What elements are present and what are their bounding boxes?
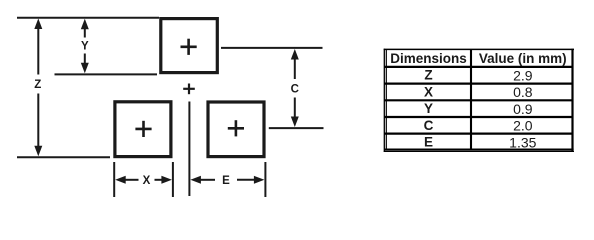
pad P1 (top square) — [161, 19, 218, 73]
extension line E right — [264, 162, 266, 197]
reference line bottom (Z lower datum) — [17, 156, 110, 158]
svg-text:E: E — [222, 175, 230, 187]
dimensions table left outer border — [383, 49, 385, 152]
dimensions table row separators — [384, 67, 573, 134]
center cross of pad P3 — [228, 120, 244, 136]
dimension Z arrowhead up — [34, 19, 42, 30]
center line vertical — [188, 102, 190, 197]
dimension Y arrow — [84, 27, 86, 65]
reference line Y lower datum — [55, 73, 158, 75]
dimension Z arrowhead down — [34, 146, 42, 157]
svg-text:C: C — [291, 83, 299, 95]
svg-text:0.8: 0.8 — [513, 84, 533, 100]
dimension X arrow left — [124, 179, 139, 181]
dimension Z arrow — [37, 27, 39, 148]
svg-text:Z: Z — [424, 68, 432, 83]
dimensions table left inner border — [385, 50, 387, 150]
dimension E arrow left — [199, 179, 215, 181]
center cross of pad P1 — [181, 39, 197, 55]
svg-text:Value (in mm): Value (in mm) — [479, 51, 567, 66]
dimension Y arrowhead up — [81, 19, 89, 30]
pad P3 (lower-right square) — [208, 102, 264, 157]
center cross of pad P2 — [135, 121, 151, 137]
svg-text:2.0: 2.0 — [513, 118, 533, 134]
reference line C lower datum — [269, 127, 324, 129]
extension line X left — [113, 162, 115, 197]
dimension C arrowhead down — [291, 117, 299, 128]
svg-text:1.35: 1.35 — [509, 134, 536, 150]
svg-text:E: E — [424, 135, 433, 150]
svg-text:Dimensions: Dimensions — [390, 51, 467, 66]
dimension Y arrowhead down — [81, 63, 89, 74]
svg-text:C: C — [424, 118, 434, 133]
dimensions table bottom inner border — [384, 149, 574, 151]
svg-text:X: X — [143, 175, 151, 187]
svg-text:2.9: 2.9 — [513, 68, 533, 84]
svg-text:Y: Y — [81, 40, 89, 52]
dimension E arrow right — [237, 179, 256, 181]
dimensions table background — [384, 49, 574, 152]
pad P2 (lower-left square) — [115, 102, 171, 157]
dimension C arrowhead up — [291, 49, 299, 60]
reference line C upper datum — [221, 47, 323, 49]
svg-text:Y: Y — [424, 101, 433, 116]
dimensions table column divider — [470, 49, 472, 149]
dimension X arrow right — [155, 179, 164, 181]
svg-text:0.9: 0.9 — [513, 101, 533, 117]
dimensions table right border — [571, 49, 573, 152]
dimension C arrow — [294, 58, 296, 119]
origin mark plus between pads — [183, 84, 195, 95]
extension line X right — [172, 162, 174, 197]
svg-text:X: X — [424, 84, 433, 99]
svg-text:Z: Z — [34, 79, 41, 91]
dimensions table bottom outer border — [384, 151, 574, 153]
dimensions table top border — [384, 48, 574, 50]
reference line top (Z/Y upper datum) — [17, 17, 159, 19]
